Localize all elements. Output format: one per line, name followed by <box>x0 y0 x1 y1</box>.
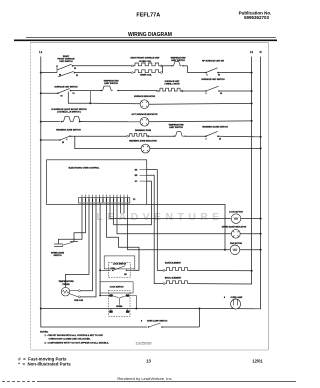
terminal outer coil left <box>131 65 133 67</box>
junction ext fan row <box>224 249 226 251</box>
svg-text:SURFACE UNIT SWITCH: SURFACE UNIT SWITCH <box>54 86 78 89</box>
wire row2 to L2 <box>219 90 252 92</box>
junction cook out <box>135 308 137 310</box>
svg-text:SWITCH: SWITCH <box>54 255 62 257</box>
svg-text:LIMIT SWITCH: LIMIT SWITCH <box>104 83 118 85</box>
coil inner <box>133 70 160 73</box>
wire bottom row L1 to cook <box>41 308 130 310</box>
junction L1 row3 <box>40 121 42 123</box>
wire limit to warming right switch <box>185 135 206 137</box>
limit switch row4 <box>174 132 184 137</box>
wire warming indicator to N <box>150 147 261 149</box>
branch warming indicator <box>75 136 141 148</box>
indicator lamp warming zone <box>141 144 150 153</box>
EOC connector pins <box>81 195 83 198</box>
svg-text:* = Non-Illustrated Parts: * = Non-Illustrated Parts <box>18 362 71 367</box>
svg-text:1. CIRCUIT SHOWN WITH ALL CON: 1. CIRCUIT SHOWN WITH ALL CONTROLS SET T… <box>45 334 104 337</box>
svg-text:RF SURFACE UNIT SW: RF SURFACE UNIT SW <box>202 59 224 62</box>
svg-text:SPEED BAKE INDICATOR: SPEED BAKE INDICATOR <box>222 225 247 228</box>
wire probe terminals link <box>70 290 79 292</box>
wire speed bake ind to N <box>240 233 260 235</box>
indicator lamp surface <box>140 100 149 109</box>
limit switch row2 <box>101 86 113 91</box>
svg-text:H2: H2 <box>62 142 64 144</box>
svg-text:OVEN DOOR CLOSED AND UNLOCKED.: OVEN DOOR CLOSED AND UNLOCKED. <box>49 338 91 341</box>
junction N lock motor <box>260 218 262 220</box>
probe circle <box>61 287 70 296</box>
svg-text:SPRING: SPRING <box>116 306 123 308</box>
wire switch to inner coil <box>75 72 132 74</box>
wire warming switch out <box>70 135 127 137</box>
wire L1 to boost switch <box>41 121 60 123</box>
junction cook upper left <box>99 295 101 297</box>
svg-text:316255069: 316255069 <box>136 342 152 346</box>
wire L2 vertical <box>251 57 253 285</box>
wire pin1 to speed bake switch <box>58 203 82 244</box>
wire pin10 to speed bake indicator row <box>117 203 231 234</box>
coil surface unit row2 <box>159 88 182 91</box>
wire EOC GY loop to bundle <box>114 181 152 225</box>
probe terminal 2 <box>78 296 80 298</box>
junction L1 bottom row <box>40 308 42 310</box>
diagram border frame right <box>267 42 269 350</box>
wire tie coils <box>162 66 164 73</box>
svg-text:N: N <box>260 50 262 54</box>
wire out of cook switch <box>130 296 136 309</box>
terminal row2 coil right <box>181 90 183 92</box>
terminal row2 coil left <box>157 90 159 92</box>
svg-text:P3: P3 <box>133 199 135 201</box>
wire row2 switch out <box>71 90 102 92</box>
junction indicator row <box>89 102 91 104</box>
box lock switch dashed <box>108 263 130 278</box>
wire EOC BK to bake element <box>147 170 163 271</box>
svg-text:Rendered by LeadVenture, Inc.: Rendered by LeadVenture, Inc. <box>117 376 172 381</box>
coil bake element <box>165 268 189 271</box>
motor fan <box>230 245 240 255</box>
switch surface unit row2 <box>57 92 59 94</box>
wire into cook switch <box>100 295 109 297</box>
svg-text:2. COMPONENTS WITH * DO NOT A: 2. COMPONENTS WITH * DO NOT APPEAR ON AL… <box>45 342 110 345</box>
motor lock <box>231 214 241 224</box>
svg-text:OVEN LAMP: OVEN LAMP <box>231 296 244 299</box>
svg-text:WARMING ZONE INDICATOR: WARMING ZONE INDICATOR <box>129 140 157 143</box>
wire coil to row2 right switch <box>182 90 206 92</box>
EOC box <box>47 160 147 205</box>
svg-text:2 WIRE, 2 NOTE: 2 WIRE, 2 NOTE <box>164 84 180 86</box>
terminal bake left <box>163 270 165 272</box>
svg-text:BROIL ELEMENT: BROIL ELEMENT <box>165 278 182 280</box>
svg-text:NOTES:: NOTES: <box>40 331 49 333</box>
footer rule <box>40 381 296 383</box>
svg-text:H1: H1 <box>60 96 62 98</box>
EOC connector strip <box>79 198 130 203</box>
svg-text:12/01: 12/01 <box>252 358 263 363</box>
svg-text:P2: P2 <box>76 75 78 77</box>
wire indicator row left <box>90 102 140 105</box>
box cook switch dashed <box>109 290 130 316</box>
junction N row4 <box>260 136 262 138</box>
svg-text:WARMING ZONE SWITCH: WARMING ZONE SWITCH <box>56 129 81 132</box>
footer rule dashes <box>2 381 40 383</box>
svg-text:P1: P1 <box>73 93 75 95</box>
svg-text:COOK SWITCH: COOK SWITCH <box>110 287 124 289</box>
svg-text:SURFACE INDICATOR: SURFACE INDICATOR <box>134 95 156 98</box>
wire pin5 to probe terminal 2 <box>80 203 96 297</box>
wire pin11 stub <box>120 203 122 214</box>
junction L1 row4 <box>40 139 42 141</box>
wire N vertical <box>260 57 262 309</box>
svg-text:LOCK MOTOR: LOCK MOTOR <box>229 212 243 214</box>
indicator lamp hot surface <box>140 117 149 126</box>
probe terminal 1 <box>78 290 80 292</box>
lamp oven <box>231 299 241 309</box>
junction L2 indicator row <box>251 102 253 104</box>
switch surface unit right <box>205 90 207 92</box>
svg-text:5995362703: 5995362703 <box>244 15 270 20</box>
junction N speed bake <box>260 233 262 235</box>
switch RF surface unit <box>205 72 207 74</box>
svg-text:( DOUBLE L+R SWITCH ): ( DOUBLE L+R SWITCH ) <box>57 111 81 113</box>
wire L1 to row2 switch <box>41 92 58 94</box>
svg-text:RIGHT FRONT SURFACE UNIT: RIGHT FRONT SURFACE UNIT <box>131 56 161 59</box>
switch front surface unit pole B <box>58 71 74 76</box>
junction L2 row3 <box>251 120 253 122</box>
wire limit to coil row2 <box>118 90 157 92</box>
svg-text:PROBE: PROBE <box>62 284 70 286</box>
coil warming zone <box>129 133 148 136</box>
junction L2 row2 <box>251 90 253 92</box>
svg-text:WARMING ZONE SWITCH: WARMING ZONE SWITCH <box>202 125 228 128</box>
wire bake to L2 <box>189 269 252 271</box>
svg-text:LEADVENTURE: LEADVENTURE <box>96 211 223 223</box>
diagram border frame bottom <box>30 349 268 351</box>
switch speed bake <box>54 243 63 245</box>
svg-text:OVEN LAMP SWITCH: OVEN LAMP SWITCH <box>147 320 168 323</box>
wire into lock switch <box>100 269 110 271</box>
wire pin8 to lock motor row <box>110 203 231 219</box>
wire pin2 to speed bake switch <box>74 203 86 241</box>
terminal inner coil left <box>131 72 133 74</box>
limit switch row1 <box>172 61 182 66</box>
wire row4 to N <box>218 135 261 138</box>
switch cook upper right contact <box>126 294 129 296</box>
diagram border frame left <box>29 42 31 350</box>
terminal outer coil right <box>160 65 162 67</box>
svg-text:INNER COIL: INNER COIL <box>140 74 152 76</box>
header rule upper <box>26 37 276 39</box>
wire pin9 drop <box>113 203 115 225</box>
switch oven lamp <box>148 326 150 328</box>
wire boost to hot indicator <box>80 121 141 123</box>
switch front surface unit pole A <box>56 66 58 73</box>
switch warming zone right <box>205 135 207 137</box>
wire L1 to front surface switch <box>41 72 57 74</box>
wire cook center tie <box>118 298 120 305</box>
svg-text:TEMPERATURE: TEMPERATURE <box>58 280 74 283</box>
junction L1 row2 <box>40 92 42 94</box>
wire EOC BR to broil element <box>147 175 163 283</box>
wire L1 vertical <box>41 57 147 328</box>
svg-text:BAKE ELEMENT: BAKE ELEMENT <box>165 261 182 264</box>
junction L1 row1 <box>40 72 42 74</box>
switch boost double <box>61 121 63 123</box>
branch row2 to indicator row <box>68 92 90 104</box>
wire row2 drop at 90 <box>89 91 91 103</box>
wire switch to outer coil <box>73 65 135 67</box>
junction L2 row1 <box>251 72 253 74</box>
junction pin6 lock row <box>99 269 101 271</box>
wire hot indicator to L2 <box>149 120 252 123</box>
wire warming coil to limit <box>148 135 174 137</box>
junction N fan motor <box>260 249 262 251</box>
box lock switch label box <box>104 256 135 269</box>
wire cook to lamp junction <box>129 308 199 310</box>
wire fan motor to N <box>240 249 261 251</box>
wire pin13 to fan motor row <box>128 203 231 250</box>
wire EOC bottom extension drop <box>147 205 225 250</box>
svg-text:UNIT SWITCH: UNIT SWITCH <box>59 61 73 63</box>
junction N row5 <box>260 147 262 149</box>
header rule lower thick <box>14 39 277 41</box>
wire tie stub upper <box>161 65 172 67</box>
svg-text:FEFL77A: FEFL77A <box>136 13 160 19</box>
wire pin4 to probe terminal 1 <box>80 203 92 291</box>
svg-text:OUTER COIL: OUTER COIL <box>139 61 152 63</box>
switch cook upper left contact <box>109 294 112 296</box>
junction lamp row <box>198 308 200 310</box>
svg-text:1: 1 <box>206 93 207 95</box>
wire pin6 to relay boxes <box>99 203 101 296</box>
svg-text:13: 13 <box>146 358 151 363</box>
wire pin7 chain to lock switch NO <box>107 203 140 270</box>
terminal warming coil right <box>147 135 149 137</box>
svg-text:FAN MOTOR: FAN MOTOR <box>230 242 243 245</box>
coil outer <box>133 63 160 66</box>
terminal broil left <box>163 283 165 285</box>
indicator lamp speed bake <box>231 229 240 238</box>
wire out of lock switch <box>127 269 140 271</box>
svg-text:WARMING ZONE: WARMING ZONE <box>135 129 152 132</box>
svg-text:HOT SURFACE INDICATOR: HOT SURFACE INDICATOR <box>132 113 158 116</box>
wire indicator row right <box>149 102 252 105</box>
wire pin12 stub <box>123 203 125 214</box>
svg-text:LOCK SWITCH: LOCK SWITCH <box>113 264 127 266</box>
svg-text:PRB CON: PRB CON <box>74 300 83 302</box>
box cook switch label box <box>100 282 133 293</box>
svg-text:ELECTRONIC OVEN CONTROL: ELECTRONIC OVEN CONTROL <box>69 168 101 170</box>
diagram border frame top <box>30 41 268 43</box>
svg-text:2: 2 <box>206 138 207 140</box>
wire pin3 to probe <box>66 203 90 287</box>
wire RF switch to L2 <box>218 72 252 74</box>
switch lock inside <box>112 270 113 271</box>
switch cook lower right contact <box>126 310 129 312</box>
svg-text:LIMIT SWITCH: LIMIT SWITCH <box>169 127 183 129</box>
junction L2 bake <box>251 270 253 272</box>
terminal inner coil right <box>160 72 162 74</box>
switch cook lower left contact <box>109 310 112 312</box>
wire broil to L2 end <box>189 283 252 285</box>
svg-text:SURFACE UNIT SWITCH: SURFACE UNIT SWITCH <box>201 78 225 81</box>
wire lamp switch riser <box>198 309 200 328</box>
wire L1 to warming switch <box>41 139 60 141</box>
switch warming zone <box>59 139 61 141</box>
wire lock motor to N <box>241 218 261 220</box>
coil broil element <box>165 281 189 284</box>
wire lamp row to N <box>199 308 261 310</box>
terminal warming coil left <box>127 135 129 137</box>
